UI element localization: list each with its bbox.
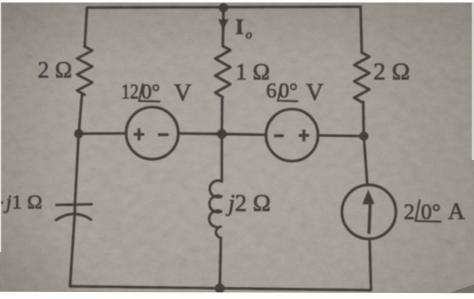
corner shading — [0, 0, 1, 1]
capacitor link stub — [73, 205, 76, 213]
voltage source VS2 plus sign — [299, 130, 310, 142]
resistor 2ohm right zigzag — [354, 53, 369, 102]
wire left lower (node L to capacitor) — [75, 134, 79, 205]
wire middle lower (node M to inductor) — [220, 134, 223, 182]
node T (top middle junction) — [219, 3, 228, 12]
voltage source 12/0 V circle U1 — [126, 107, 178, 159]
wire middle top (node T down through Io arrow to 1ohm) — [221, 8, 224, 47]
wire capacitor to bottom-left corner — [70, 214, 75, 286]
wire left top segment (TL down to 2ohm resistor) — [85, 8, 87, 47]
inductor j2ohm coil — [209, 181, 222, 238]
node R (right middle junction) — [359, 132, 368, 141]
wire VS1 to node M — [178, 132, 222, 135]
resistor 1ohm zigzag — [215, 46, 230, 97]
node L (left middle junction) — [74, 129, 83, 138]
label 2/0 A (current source value with angle notation) — [404, 199, 465, 225]
resistor 2ohm left zigzag — [77, 47, 92, 95]
node M (center junction) — [217, 129, 227, 139]
paper grain — [0, 0, 1, 1]
wire middle row: node L to VS1 — [79, 132, 127, 135]
voltage source VS1 minus sign — [158, 133, 169, 136]
voltage source VS1 plus sign — [134, 128, 309, 141]
voltage source 6/0 V circle U2 — [266, 109, 318, 161]
wire right mid (resistor to node R) — [362, 102, 365, 136]
voltage source VS2 minus sign — [274, 134, 284, 137]
wire left mid (resistor to node L) — [79, 95, 82, 134]
bottom-right page edge shadow — [450, 285, 474, 293]
wire middle (1ohm to node M) — [220, 97, 223, 134]
label 6/0 V (VS2 value with angle notation) — [266, 78, 324, 106]
node B (bottom middle junction) — [215, 284, 225, 294]
white page edges — [0, 0, 474, 3]
ink group — [56, 7, 396, 291]
background ghost smudges — [39, 41, 463, 272]
wire right top (TR down to 2ohm resistor) — [361, 7, 362, 53]
label -j1 ohm (capacitor value) — [0, 201, 3, 204]
label 12/0 V (VS1 value with angle notation) — [121, 79, 192, 106]
wire right lower (node R to current source) — [364, 136, 368, 185]
wire bottom (BL to BR) — [70, 286, 371, 290]
wire inductor to bottom node B — [220, 238, 221, 288]
capacitor -j1ohm top plate — [57, 203, 92, 206]
current source 2/0 A circle — [342, 185, 396, 239]
current Io arrowhead — [218, 19, 228, 29]
wire node M to VS2 — [222, 133, 266, 136]
wire top (TL to TR) — [87, 5, 361, 9]
wire VS2 to node R — [318, 134, 364, 137]
capacitor -j1ohm curved plate — [56, 214, 91, 220]
wire current source to bottom-right corner — [370, 239, 371, 290]
current source arrow — [362, 190, 374, 234]
